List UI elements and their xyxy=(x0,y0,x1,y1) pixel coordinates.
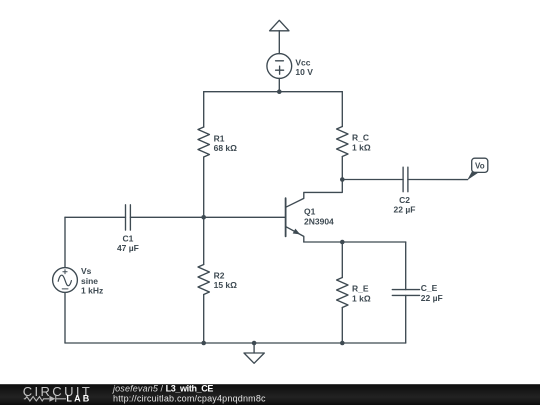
svg-text:R1: R1 xyxy=(214,133,225,143)
svg-text:1 kΩ: 1 kΩ xyxy=(352,142,371,152)
wire VCC flag to Vcc source xyxy=(278,31,280,54)
capacitor C_E xyxy=(392,290,419,296)
capacitor C1 xyxy=(126,205,131,230)
footer text josefevan5 / L3_with_CE xyxy=(112,383,266,403)
node base / R1 R2 junction xyxy=(201,215,206,220)
wire R2 to bottom rail xyxy=(203,295,205,344)
transistor Q1 emitter lead with arrow xyxy=(286,227,304,242)
node top rail / Vcc junction xyxy=(277,89,282,94)
node emitter junction xyxy=(340,240,345,245)
wire emitter row xyxy=(304,241,406,243)
resistor R1 xyxy=(198,127,209,157)
node ground junction xyxy=(252,341,257,346)
power flag VCC triangle xyxy=(270,20,289,31)
label R1 68 kOhm xyxy=(214,133,238,153)
svg-text:C2: C2 xyxy=(399,195,410,205)
svg-text:C_E: C_E xyxy=(421,283,438,293)
svg-text:2N3904: 2N3904 xyxy=(304,216,334,226)
wire emitter node to R_E xyxy=(341,242,343,278)
label C2 22 uF xyxy=(394,195,416,215)
svg-text:68 kΩ: 68 kΩ xyxy=(214,143,238,153)
svg-text:22 µF: 22 µF xyxy=(421,293,443,303)
capacitor C2 xyxy=(403,167,408,192)
wire top rail to R_C xyxy=(341,92,343,127)
wire R1 to base node xyxy=(203,157,205,217)
wire left column: base row to Vs xyxy=(64,217,66,267)
node collector junction xyxy=(340,177,345,182)
resistor R_E xyxy=(337,278,348,308)
wire emitter row to C_E xyxy=(405,242,407,290)
wire C_E to bottom rail xyxy=(405,295,407,343)
svg-text:Vo: Vo xyxy=(475,162,485,171)
node R2 bottom junction xyxy=(201,341,206,346)
label R_E 1 kOhm xyxy=(352,284,371,304)
label C1 47 uF xyxy=(117,233,139,253)
wire R_E to bottom rail xyxy=(341,308,343,344)
label R_C 1 kOhm xyxy=(352,133,371,153)
logo CIRCUIT LAB xyxy=(23,384,93,403)
label Vs sine 1 kHz xyxy=(81,266,103,295)
svg-text:1 kΩ: 1 kΩ xyxy=(352,293,371,303)
wire C1 to base node and transistor base xyxy=(130,216,285,218)
resistor R2 xyxy=(198,265,209,295)
svg-text:http://circuitlab.com/cpay4pnq: http://circuitlab.com/cpay4pnqdnm8c xyxy=(113,393,266,403)
resistor R_C xyxy=(337,127,348,157)
wire Vcc source to top rail xyxy=(278,78,280,91)
wire top rail to R1 xyxy=(203,92,205,127)
label R2 15 kOhm xyxy=(214,270,238,290)
svg-text:R2: R2 xyxy=(214,270,225,280)
svg-text:Vs: Vs xyxy=(81,266,92,276)
svg-text:22 µF: 22 µF xyxy=(394,205,416,215)
svg-text:15 kΩ: 15 kΩ xyxy=(214,280,238,290)
svg-text:R_E: R_E xyxy=(352,284,369,294)
voltage source Vs sine xyxy=(53,268,78,293)
svg-text:1 kHz: 1 kHz xyxy=(81,286,103,296)
wire base node to R2 xyxy=(203,217,205,264)
svg-text:47 µF: 47 µF xyxy=(117,243,139,253)
transistor Q1 collector lead xyxy=(286,180,342,208)
svg-text:R_C: R_C xyxy=(352,133,369,143)
svg-text:C1: C1 xyxy=(122,233,133,243)
ground xyxy=(244,343,264,363)
wire Vs to bottom rail xyxy=(64,293,66,344)
wire R_C to collector node xyxy=(341,157,343,180)
label C_E 22 uF xyxy=(421,283,443,303)
footer bar xyxy=(0,384,540,405)
svg-text:LAB: LAB xyxy=(66,393,91,403)
wire C2 to Vo flag xyxy=(408,179,468,181)
svg-text:Vcc: Vcc xyxy=(295,57,310,67)
svg-text:josefevan5 / L3_with_CE: josefevan5 / L3_with_CE xyxy=(112,383,213,393)
node flag Vo xyxy=(467,158,488,180)
voltage source Vcc xyxy=(267,54,292,79)
node R_E bottom junction xyxy=(340,341,345,346)
svg-text:sine: sine xyxy=(81,276,98,286)
wire base row left: Vs to C1 xyxy=(65,216,126,218)
wire top rail xyxy=(204,91,343,93)
wire bottom rail xyxy=(65,342,406,344)
transistor Q1 base bar xyxy=(285,198,287,236)
label Q1 2N3904 xyxy=(304,207,334,227)
wire collector node to C2 xyxy=(342,179,403,181)
svg-text:Q1: Q1 xyxy=(304,207,316,217)
label Vcc 10 V xyxy=(295,57,313,77)
svg-text:10 V: 10 V xyxy=(295,67,313,77)
